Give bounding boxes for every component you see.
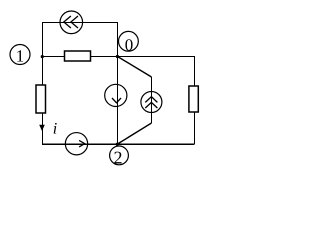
wire top horizontal (left branch to middle branch) [42, 22, 117, 24]
wire diagonal lower [118, 123, 152, 144]
junction dot bottom middle [116, 143, 119, 146]
wire middle vertical [117, 22, 119, 144]
wire middle horizontal right part [91, 56, 195, 58]
node 0 [118, 31, 138, 54]
wire bottom horizontal [42, 143, 195, 145]
node 1 [10, 45, 30, 66]
dependent current source top (double left chevron) [60, 11, 83, 34]
current arrow i [39, 125, 45, 131]
resistor right branch [189, 86, 198, 112]
svg-text:i: i [53, 120, 57, 137]
wire middle horizontal left part [41, 56, 65, 58]
wire diagonal upper [118, 57, 152, 78]
node 2 [110, 146, 129, 168]
junction dot left [41, 55, 44, 58]
current source bottom (right arrow) [65, 133, 87, 155]
wire left vertical lower [42, 113, 44, 144]
svg-text:0: 0 [125, 36, 134, 55]
wire right vertical lower [194, 112, 196, 144]
dependent current source right (double up chevron) [141, 92, 162, 113]
junction dot top middle [116, 55, 119, 58]
wire diagonal branch vertical [151, 77, 153, 123]
resistor left branch [36, 85, 46, 113]
svg-text:2: 2 [114, 148, 123, 168]
wire left vertical upper [42, 22, 44, 85]
svg-text:1: 1 [16, 47, 25, 66]
resistor top middle [65, 51, 91, 61]
current source middle (down arrow) [105, 84, 127, 106]
wire right vertical upper [194, 56, 196, 86]
